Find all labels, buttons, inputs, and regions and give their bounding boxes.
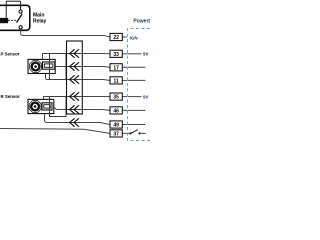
svg-text:Powertrain Co: Powertrain Co xyxy=(133,18,150,24)
svg-text:35: 35 xyxy=(113,95,119,101)
svg-text:49: 49 xyxy=(113,123,119,129)
svg-text:17: 17 xyxy=(113,65,119,71)
svg-text:Relay: Relay xyxy=(33,19,47,25)
svg-text:9V: 9V xyxy=(143,52,149,57)
svg-text:P Sensor: P Sensor xyxy=(1,51,20,56)
svg-text:33: 33 xyxy=(113,52,119,58)
svg-text:11: 11 xyxy=(113,78,119,84)
svg-text:IGN: IGN xyxy=(130,36,138,41)
svg-text:22: 22 xyxy=(113,35,119,41)
svg-text:37: 37 xyxy=(113,131,119,137)
svg-text:46: 46 xyxy=(113,108,119,114)
svg-text:R Sensor: R Sensor xyxy=(1,94,21,99)
svg-text:9V: 9V xyxy=(143,95,149,100)
